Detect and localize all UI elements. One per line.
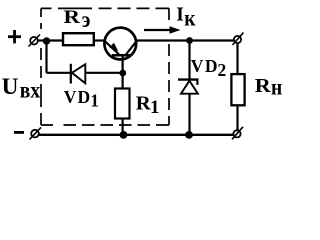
node: VD2 bottom rail dot <box>185 131 193 139</box>
svg-text:1: 1 <box>90 91 99 111</box>
wire: junction down to VD1 row <box>45 41 47 73</box>
svg-text:1: 1 <box>150 97 160 118</box>
wire: base node to R1 <box>121 73 123 88</box>
dashed enclosure box <box>41 8 169 125</box>
zener diode VD2 (cathode bar with hook) <box>178 80 199 94</box>
transistor VT1 (PNP) <box>104 28 136 73</box>
wire: + terminal to Re <box>38 39 63 41</box>
base lead down <box>121 56 123 74</box>
wire: R1 to bottom rail <box>121 119 123 135</box>
wire: Re to transistor emitter <box>94 39 106 41</box>
svg-text:U: U <box>2 74 19 100</box>
resistor R1 <box>115 89 130 119</box>
svg-text:VD: VD <box>191 56 219 76</box>
current arrow Ik <box>144 26 181 33</box>
svg-text:R: R <box>255 76 272 97</box>
diode VD1 (cathode bar left) <box>71 64 86 84</box>
resistor Rn <box>231 74 244 105</box>
emitter line <box>105 41 120 55</box>
emitter arrow (PNP) <box>109 43 118 52</box>
base bar <box>112 54 130 57</box>
svg-text:э: э <box>82 7 91 33</box>
svg-text:н: н <box>271 74 282 100</box>
wire: collector to output terminal <box>137 39 235 41</box>
node: base node dot <box>119 70 126 77</box>
output terminal bottom (circle with slash) <box>232 127 243 140</box>
output terminal top (circle with slash) <box>233 33 244 46</box>
svg-text:вх: вх <box>20 77 40 103</box>
wire: Rn to bottom terminal <box>236 106 238 131</box>
node: junction dot <box>43 37 50 44</box>
bottom rail wire <box>39 134 234 136</box>
collector line <box>126 41 137 55</box>
input terminal + (circle with slash) <box>29 35 41 47</box>
svg-text:2: 2 <box>218 60 227 80</box>
input terminal - (circle with slash) <box>30 127 42 139</box>
wire: top terminal down to Rn <box>236 43 238 74</box>
wire: VD2 top lead <box>188 41 190 80</box>
svg-text:R: R <box>64 7 81 28</box>
svg-text:к: к <box>184 5 196 31</box>
wire: VD1 row left <box>47 72 71 74</box>
node: R1 bottom rail dot <box>120 131 128 139</box>
wire: VD2 bottom lead <box>188 94 190 135</box>
plus sign label <box>8 30 21 43</box>
resistor Re <box>63 33 94 45</box>
minus sign label <box>14 131 24 134</box>
node: collector rail / VD2 junction <box>186 37 193 44</box>
wire: VD1 to base node <box>85 72 121 74</box>
svg-text:I: I <box>176 5 184 26</box>
svg-text:VD: VD <box>64 87 91 107</box>
